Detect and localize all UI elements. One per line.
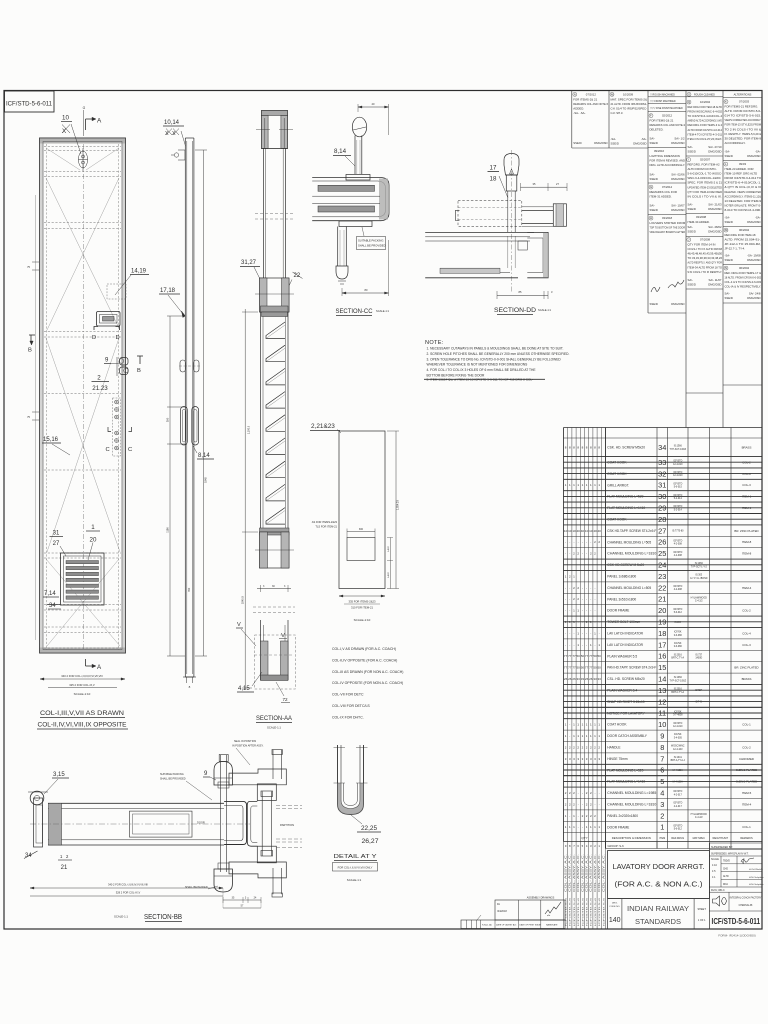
svg-text:-: - xyxy=(569,814,570,818)
svg-text:N: N xyxy=(725,266,727,270)
svg-text:5-6-010/COL-1 TO WGSC-: 5-6-010/COL-1 TO WGSC- xyxy=(688,172,723,176)
svg-text:328 2 FOR COL-IX,V: 328 2 FOR COL-IX,V xyxy=(116,891,141,895)
svg-text:22: 22 xyxy=(658,583,666,592)
svg-text:DOOR CATCH ASSEMBLY: DOOR CATCH ASSEMBLY xyxy=(607,734,647,738)
svg-text:2: 2 xyxy=(586,791,588,795)
svg-text:ACCORDINGLY. ITEMS-11,12&: ACCORDINGLY. ITEMS-11,12& xyxy=(725,194,762,198)
svg-text:SA/- 1/2: SA/- 1/2 xyxy=(674,137,685,141)
svg-text:R.Num. Alt.: R.Num. Alt. xyxy=(482,924,493,927)
svg-text:WEIGHT/UNIT: WEIGHT/UNIT xyxy=(712,837,728,840)
svg-text:ICF/STD-5-6: ICF/STD-5-6 xyxy=(591,896,593,926)
svg-text:ALTD FROM ICF/STD-: ALTD FROM ICF/STD- xyxy=(688,167,717,171)
svg-text:Dn: Dn xyxy=(497,903,501,906)
svg-text:SUPERSEDED BY:: SUPERSEDED BY: xyxy=(711,846,733,849)
svg-text:WGSC/WNC: WGSC/WNC xyxy=(671,746,685,748)
svg-text:1: 1 xyxy=(598,723,600,727)
section BB centre hinge xyxy=(214,755,232,893)
svg-text:31,27: 31,27 xyxy=(241,260,257,266)
svg-text:COL- ASSY. A.C.: COL- ASSY. A.C. xyxy=(573,853,576,892)
svg-text:DMG/DSD: DMG/DSD xyxy=(747,154,760,158)
svg-text:1: 1 xyxy=(573,723,575,727)
svg-text:CHD: CHD xyxy=(723,868,728,870)
svg-text:2: 2 xyxy=(569,802,571,806)
svg-text:PLAIN WASHER 5.5: PLAIN WASHER 5.5 xyxy=(607,654,637,658)
svg-text:1400D: 1400D xyxy=(695,658,702,660)
svg-text:-: - xyxy=(582,825,583,829)
svg-text:-: - xyxy=(565,586,566,590)
svg-text:N: N xyxy=(574,92,576,96)
svg-text:ICF/STD-6-4-010/COL-1.: ICF/STD-6-4-010/COL-1. xyxy=(725,181,762,185)
svg-text:WHEREVER TOLERANCE IS NOT MENT: WHEREVER TOLERANCE IS NOT MENTIONED FOR … xyxy=(427,363,529,367)
svg-text:COL-III AS DRAWN (FOR NON A.: COL-III AS DRAWN (FOR NON A.C. COACH) xyxy=(332,670,403,674)
svg-text:-: - xyxy=(565,609,566,613)
svg-text:REF.DRG FOR ITEMS-3 & 4: REF.DRG FOR ITEMS-3 & 4 xyxy=(688,123,723,127)
svg-text:ITEM-31 ADDED.: ITEM-31 ADDED. xyxy=(650,195,672,199)
svg-text:COL- ASSY. A.C.: COL- ASSY. A.C. xyxy=(602,853,605,892)
svg-text:FROM ICF/STD-6-4-012 TO: FROM ICF/STD-6-4-012 TO xyxy=(725,176,762,180)
svg-text:2: 2 xyxy=(590,814,592,818)
svg-text:07/2003: 07/2003 xyxy=(739,100,750,104)
label 14,19 with leader xyxy=(115,269,149,296)
svg-text:10: 10 xyxy=(585,529,589,533)
svg-text:ASSEMBLY DRAWINGS: ASSEMBLY DRAWINGS xyxy=(527,897,555,900)
svg-text:5-6-015: 5-6-015 xyxy=(674,487,683,489)
section column bottom rail dims xyxy=(253,585,295,613)
svg-text:3: 3 xyxy=(551,290,553,294)
svg-text:ICF/STD-5-6: ICF/STD-5-6 xyxy=(595,896,597,926)
svg-text:D: D xyxy=(92,335,96,341)
svg-text:2: 2 xyxy=(586,745,588,749)
svg-text:REF.DRG. FOR ITEM-A2: REF.DRG. FOR ITEM-A2 xyxy=(688,163,720,167)
svg-text:ICF/STD: ICF/STD xyxy=(673,586,682,588)
svg-text:-: - xyxy=(578,825,579,829)
title block right info column xyxy=(709,843,764,929)
svg-text:1: 1 xyxy=(573,814,575,818)
svg-text:SCALE-1:1: SCALE-1:1 xyxy=(114,915,128,919)
svg-text:3: 3 xyxy=(590,757,592,761)
svg-text:4: 4 xyxy=(586,844,588,848)
svg-text:2: 2 xyxy=(573,802,575,806)
svg-text:10: 10 xyxy=(62,115,69,122)
svg-text:1845: 1845 xyxy=(204,477,208,483)
svg-text:1: 1 xyxy=(577,483,579,487)
shall be packed note xyxy=(185,886,218,889)
svg-text:PARTITION: PARTITION xyxy=(280,823,294,827)
caption SECTION-DD xyxy=(494,307,552,315)
svg-text:1: 1 xyxy=(586,825,588,829)
louver grille front view xyxy=(61,553,105,605)
caption COL-I,III,V,VII AS DRAWN xyxy=(37,710,128,729)
svg-text:DELETED.: DELETED. xyxy=(650,127,664,131)
svg-text:-: - xyxy=(590,597,591,601)
svg-text:09/2016: 09/2016 xyxy=(654,149,665,153)
svg-text:-: - xyxy=(586,586,587,590)
note block xyxy=(424,340,570,382)
svg-text:ITEM-10 REF. DRG ALTD: ITEM-10 REF. DRG ALTD xyxy=(725,172,758,176)
svg-text:DMG/DSD: DMG/DSD xyxy=(708,283,721,287)
svg-text:8: 8 xyxy=(598,445,600,449)
svg-text:SSE/D: SSE/D xyxy=(725,296,733,300)
section arrow A (bottom) xyxy=(86,659,103,671)
svg-text:L: L xyxy=(725,162,727,166)
svg-text:-: - xyxy=(595,586,596,590)
label 31 / 27 (louver) xyxy=(50,531,67,557)
svg-text:25: 25 xyxy=(658,549,666,558)
svg-text:2: 2 xyxy=(569,745,571,749)
svg-text:72: 72 xyxy=(282,697,288,702)
svg-text:COL- ASSY. A.C.: COL- ASSY. A.C. xyxy=(569,853,572,892)
svg-text:IS:7775-80: IS:7775-80 xyxy=(672,531,684,533)
svg-text:1: 1 xyxy=(569,825,571,829)
svg-text:DMG/DSD: DMG/DSD xyxy=(633,142,646,146)
svg-text:2: 2 xyxy=(577,552,579,556)
section CC knob and stem xyxy=(352,117,366,174)
label 3,15 xyxy=(44,772,69,794)
svg-text:75: 75 xyxy=(27,265,30,269)
label 10 with screw symbol xyxy=(61,115,81,155)
svg-text:FOR ITEM-13 STYLE2S.FROM: FOR ITEM-13 STYLE2S.FROM xyxy=(725,123,762,127)
svg-text:1: 1 xyxy=(577,734,579,738)
svg-text:SSE/D: SSE/D xyxy=(688,230,696,234)
svg-text:-: - xyxy=(565,540,566,544)
svg-text:5: 5 xyxy=(582,844,584,848)
section C-C bolt strip detail xyxy=(106,398,133,456)
svg-text:SA/- 02/06: SA/- 02/06 xyxy=(671,173,685,177)
svg-text:-: - xyxy=(590,540,591,544)
svg-text:2: 2 xyxy=(590,552,592,556)
svg-text:1:1: 1:1 xyxy=(712,876,716,879)
svg-text:A: A xyxy=(97,664,102,671)
svg-text:PAN HD.TAPP. SCREW ST4.2x9-F: PAN HD.TAPP. SCREW ST4.2x9-F xyxy=(607,666,656,670)
svg-text:INDIAN RAILWAY: INDIAN RAILWAY xyxy=(627,904,689,913)
svg-text:JP-112-1 TO 15.004-R2,: JP-112-1 TO 15.004-R2, xyxy=(725,242,762,246)
panel detail dimensions xyxy=(312,431,400,622)
svg-text:1,190.5: 1,190.5 xyxy=(248,425,251,434)
svg-text:-: - xyxy=(595,597,596,601)
svg-text:ADDED.: ADDED. xyxy=(573,107,584,111)
door elevation internal dashed rails xyxy=(44,144,121,650)
svg-text:ICF/STD: ICF/STD xyxy=(673,803,682,805)
svg-text:18 ALTD. FROM ICF/SN-0-6-002: 18 ALTD. FROM ICF/SN-0-6-002 xyxy=(725,276,762,280)
svg-text:ICF/STD: ICF/STD xyxy=(673,791,682,793)
svg-text:3. OPEN TOLERANCE TO DRG No. I: 3. OPEN TOLERANCE TO DRG No. ICF/STD-0-0… xyxy=(427,357,562,361)
svg-text:300: 300 xyxy=(359,528,364,531)
side view bottom foot xyxy=(183,677,196,689)
svg-text:LAVATORY DOOR ARRGT.: LAVATORY DOOR ARRGT. xyxy=(613,862,705,871)
svg-text:SHALL BE PROVIDED: SHALL BE PROVIDED xyxy=(358,244,386,248)
section CC bottom dimension xyxy=(342,240,389,296)
svg-text:-: - xyxy=(569,631,570,635)
svg-text:-: - xyxy=(582,586,583,590)
svg-text:C: C xyxy=(106,447,110,453)
svg-text:COL-4: COL-4 xyxy=(742,631,751,635)
svg-text:▽ ROUGH MACHINED: ▽ ROUGH MACHINED xyxy=(650,93,675,96)
svg-text:-SA-: -SA- xyxy=(725,216,731,220)
svg-text:26: 26 xyxy=(572,677,576,681)
svg-text:1: 1 xyxy=(598,483,600,487)
svg-text:-SA-: -SA- xyxy=(725,150,731,154)
svg-text:ITEM-34 ALTD FROM 18 TO: ITEM-34 ALTD FROM 18 TO xyxy=(688,265,723,269)
svg-text:ICF/STD: ICF/STD xyxy=(673,825,682,827)
svg-text:1: 1 xyxy=(91,524,95,531)
parts table grid xyxy=(564,428,763,929)
svg-text:1: 1 xyxy=(590,734,592,738)
svg-text:2: 2 xyxy=(582,814,584,818)
svg-text:FOR ITEM-8 REVISED. AND: FOR ITEM-8 REVISED. AND xyxy=(650,159,686,163)
svg-text:SA/- 10/07: SA/- 10/07 xyxy=(671,204,685,208)
svg-text:10: 10 xyxy=(658,720,666,729)
svg-text:QTY FOR ITEM-10 REVISED: QTY FOR ITEM-10 REVISED xyxy=(688,190,723,194)
svg-text:SA/-: SA/- xyxy=(688,278,694,282)
svg-text:3-6-080: 3-6-080 xyxy=(674,646,683,648)
svg-text:10/2004: 10/2004 xyxy=(700,100,711,104)
door handle recess detail xyxy=(97,312,121,327)
svg-text:SUITABLE PACKING: SUITABLE PACKING xyxy=(358,239,383,243)
svg-text:1: 1 xyxy=(594,734,596,738)
svg-text:H.N.Chn/pthan: H.N.Chn/pthan xyxy=(749,876,764,879)
svg-text:02/2012: 02/2012 xyxy=(662,114,673,118)
svg-text:5-6-012: 5-6-012 xyxy=(674,829,683,831)
svg-text:8: 8 xyxy=(590,445,592,449)
svg-text:-: - xyxy=(569,552,570,556)
svg-text:34: 34 xyxy=(49,603,56,609)
svg-text:2: 2 xyxy=(660,811,664,820)
svg-text:ALTD. FROM 15.004-91-,: ALTD. FROM 15.004-91-, xyxy=(725,238,762,242)
section DD bottom dimension xyxy=(497,290,553,299)
svg-text:COL- ASSY. A.C.: COL- ASSY. A.C. xyxy=(586,853,589,892)
svg-text:DETAIL AT Y: DETAIL AT Y xyxy=(334,854,378,860)
svg-text:SSE/D: SSE/D xyxy=(725,258,733,262)
svg-text:-: - xyxy=(569,734,570,738)
svg-text:QTY: QTY xyxy=(581,836,587,840)
svg-text:2,21&23: 2,21&23 xyxy=(311,423,335,430)
parts table header row xyxy=(581,836,753,840)
svg-text:GROUP: S-6: GROUP: S-6 xyxy=(608,844,625,848)
svg-text:FORM- IRJ414-1(ODO/650): FORM- IRJ414-1(ODO/650) xyxy=(718,934,756,938)
svg-text:COL-1: COL-1 xyxy=(742,723,751,727)
svg-text:SA/-: SA/- xyxy=(688,225,694,229)
svg-text:-: - xyxy=(569,540,570,544)
panel detail 2,21&23 xyxy=(310,423,385,589)
svg-text:40: 40 xyxy=(581,529,585,533)
svg-text:12-4-010: 12-4-010 xyxy=(673,475,683,477)
svg-text:CHANNEL MOULDING L=1985: CHANNEL MOULDING L=1985 xyxy=(607,791,656,795)
svg-text:26: 26 xyxy=(568,677,572,681)
svg-text:2: 2 xyxy=(573,597,575,601)
svg-text:-: - xyxy=(569,643,570,647)
svg-text:TLS FOR ITEM-21: TLS FOR ITEM-21 xyxy=(315,525,337,529)
svg-text:33: 33 xyxy=(598,677,602,681)
svg-text:6: 6 xyxy=(577,844,579,848)
svg-text:35: 35 xyxy=(533,182,536,186)
svg-text:26: 26 xyxy=(589,677,593,681)
svg-text:SCALE-1:10: SCALE-1:10 xyxy=(354,618,371,622)
svg-text:Gr 'C' CL./BOND: Gr 'C' CL./BOND xyxy=(690,577,708,580)
svg-text:2: 2 xyxy=(594,814,596,818)
svg-text:4-2-008: 4-2-008 xyxy=(674,544,683,546)
label 34 struck xyxy=(47,603,61,609)
svg-text:12-4-103: 12-4-103 xyxy=(673,749,683,751)
svg-text:3: 3 xyxy=(284,585,286,588)
svg-text:40: 40 xyxy=(593,529,597,533)
svg-text:SCALE-1:1: SCALE-1:1 xyxy=(376,309,390,313)
svg-text:2: 2 xyxy=(598,540,600,544)
svg-text:SA/-: SA/- xyxy=(688,145,694,149)
svg-text:SPEC. FOR ITEMS-2 & 21: SPEC. FOR ITEMS-2 & 21 xyxy=(688,181,723,185)
svg-text:-: - xyxy=(578,540,579,544)
svg-text:REMARKS COL AND NOTE-3: REMARKS COL AND NOTE-3 xyxy=(650,123,686,127)
svg-text:3: 3 xyxy=(565,757,567,761)
svg-text:3: 3 xyxy=(573,757,575,761)
svg-text:3: 3 xyxy=(586,757,588,761)
svg-text:VIEWS CORRECTED ACCORDILY.: VIEWS CORRECTED ACCORDILY. xyxy=(725,118,762,122)
svg-text:NAME/DATE: NAME/DATE xyxy=(546,924,558,927)
svg-text:1: 1 xyxy=(586,483,588,487)
svg-text:1. NECESSARY CUTAWAYS IN PANEL: 1. NECESSARY CUTAWAYS IN PANELS & MOULDI… xyxy=(427,347,564,351)
svg-text:COL-I,V AS DRAWN (FOR A.C. C: COL-I,V AS DRAWN (FOR A.C. COACH) xyxy=(332,647,396,651)
svg-text:07/2008: 07/2008 xyxy=(700,238,711,242)
section BB long dimension lines xyxy=(30,883,223,897)
svg-text:30: 30 xyxy=(272,585,275,588)
svg-text:3-7-4008: 3-7-4008 xyxy=(673,715,683,717)
svg-text:8: 8 xyxy=(594,445,596,449)
svg-text:1: 1 xyxy=(594,631,596,635)
svg-text:77: 77 xyxy=(568,654,572,658)
svg-text:REF DRG FOR ITEM-18 ALTD: REF DRG FOR ITEM-18 ALTD xyxy=(688,105,723,109)
svg-text:ICF/STD-5-6: ICF/STD-5-6 xyxy=(570,896,572,926)
revision column 4 header and blocks xyxy=(687,92,723,286)
svg-text:SEAL IN POSITION: SEAL IN POSITION xyxy=(234,740,256,743)
svg-text:50: 50 xyxy=(577,654,581,658)
svg-text:TO 2 IN COLS-I TO VII &: TO 2 IN COLS-I TO VII & xyxy=(725,127,762,131)
svg-text:SHALL BE PROVIDED: SHALL BE PROVIDED xyxy=(160,778,186,781)
svg-text:75: 75 xyxy=(27,415,30,419)
svg-text:4-2-017: 4-2-017 xyxy=(674,794,683,796)
section DD lower channel assembly xyxy=(425,232,548,277)
svg-text:AMEND ALTD ACCORDINGLY.WG: AMEND ALTD ACCORDINGLY.WG xyxy=(688,119,723,123)
svg-text:SECTION-AA: SECTION-AA xyxy=(256,715,293,722)
svg-text:DNA: DNA xyxy=(723,883,728,886)
svg-text:DMG/DSD: DMG/DSD xyxy=(747,220,760,224)
svg-text:18: 18 xyxy=(490,176,497,183)
svg-text:3: 3 xyxy=(594,757,596,761)
svg-text:COL-IA & IV RESPECTIVELY.: COL-IA & IV RESPECTIVELY. xyxy=(725,285,762,289)
section DD top dimension xyxy=(521,182,568,191)
svg-text:33: 33 xyxy=(581,677,585,681)
revision column 1 block N xyxy=(573,92,609,145)
svg-text:2: 2 xyxy=(598,745,600,749)
svg-text:50: 50 xyxy=(598,654,602,658)
svg-text:2: 2 xyxy=(97,375,101,382)
svg-text:7: 7 xyxy=(660,754,664,763)
svg-text:21.23: 21.23 xyxy=(92,385,108,392)
svg-text:SSE/D: SSE/D xyxy=(688,150,696,154)
svg-text:COL-II,IV,VI,VIII,IX OPPOSITE: COL-II,IV,VI,VIII,IX OPPOSITE xyxy=(38,722,127,729)
svg-text:1: 1 xyxy=(577,631,579,635)
svg-text:IS:1341: IS:1341 xyxy=(674,757,683,759)
section CC top dimension xyxy=(358,102,389,135)
suitable packing note (section BB) xyxy=(160,773,212,800)
svg-text:06/2004: 06/2004 xyxy=(739,266,750,270)
svg-text:C-K SH.3.: C-K SH.3. xyxy=(611,111,624,115)
svg-text:LOUVERS SHIFTED FROM: LOUVERS SHIFTED FROM xyxy=(650,221,686,225)
svg-text:34: 34 xyxy=(658,443,666,452)
svg-text:-: - xyxy=(595,609,596,613)
svg-text:ICF/STD: ICF/STD xyxy=(673,723,682,725)
svg-text:BRT-C.TY-A: BRT-C.TY-A xyxy=(671,691,684,694)
svg-text:SUPERSEDES: WP/ICF/LAV'A/ W.T: SUPERSEDES: WP/ICF/LAV'A/ W.T. xyxy=(711,853,749,856)
svg-text:1: 1 xyxy=(565,574,567,578)
caption DETAIL AT Y xyxy=(333,854,378,882)
svg-text:TBD/D: TBD/D xyxy=(723,861,730,863)
seal note (section BB) xyxy=(232,740,264,765)
svg-text:1:10: 1:10 xyxy=(712,864,717,867)
svg-text:ICF/STD-5-6: ICF/STD-5-6 xyxy=(587,896,589,926)
svg-text:H.Ch.DNa/aN.: H.Ch.DNa/aN. xyxy=(749,869,763,871)
svg-text:-: - xyxy=(565,643,566,647)
svg-text:DRG.: DRG. xyxy=(612,903,618,905)
svg-text:140/2: 140/2 xyxy=(388,545,390,551)
svg-text:BR. ZINC PLATED: BR. ZINC PLATED xyxy=(734,529,758,533)
svg-text:SSE/D: SSE/D xyxy=(611,142,619,146)
svg-text:M-4-150A: M-4-150A xyxy=(673,780,684,783)
section column bottom cap of louver xyxy=(255,528,294,568)
svg-text:REF. DRG.FOR ITEMS-17 &: REF. DRG.FOR ITEMS-17 & xyxy=(725,271,762,275)
svg-text:SECTION-CC: SECTION-CC xyxy=(336,308,373,315)
svg-text:BRT-A,TY.A-J: BRT-A,TY.A-J xyxy=(671,759,685,762)
svg-text:140/2: 140/2 xyxy=(388,571,390,577)
svg-text:1: 1 xyxy=(590,825,592,829)
svg-text:BRASS: BRASS xyxy=(742,677,752,681)
svg-text:DELETED. VIEWS CORRECTED: DELETED. VIEWS CORRECTED xyxy=(725,190,762,194)
svg-text:COL-VII FOR DETC: COL-VII FOR DETC xyxy=(332,693,364,697)
svg-text:SUITABLE PACKING: SUITABLE PACKING xyxy=(160,773,184,776)
svg-text:ACCORDINGLY.: ACCORDINGLY. xyxy=(725,141,746,145)
revision column 3 header and blocks xyxy=(649,93,686,306)
svg-text:SSE/D: SSE/D xyxy=(725,220,733,224)
svg-text:HINGE 75mm: HINGE 75mm xyxy=(607,757,628,761)
svg-text:1: 1 xyxy=(577,723,579,727)
svg-text:21: 21 xyxy=(61,865,68,871)
svg-text:C-4 2/2: C-4 2/2 xyxy=(695,817,703,819)
section BB left pivot xyxy=(28,791,48,847)
svg-text:CODE NO.: CODE NO. xyxy=(609,906,620,908)
svg-text:1: 1 xyxy=(573,734,575,738)
svg-text:1: 1 xyxy=(594,723,596,727)
svg-text:ICF/SK: ICF/SK xyxy=(674,734,682,736)
svg-text:1: 1 xyxy=(582,483,584,487)
svg-text:2: 2 xyxy=(594,540,596,544)
svg-text:7,14: 7,14 xyxy=(44,591,56,597)
svg-text:14,19: 14,19 xyxy=(131,269,147,275)
svg-text:COL-2: COL-2 xyxy=(742,745,751,749)
svg-text:1: 1 xyxy=(569,483,571,487)
label 15,16 with leader xyxy=(42,437,70,455)
label 17 / 18 (section DD) xyxy=(488,165,509,199)
svg-text:9: 9 xyxy=(565,844,567,848)
svg-text:COL- ASSY. A.C.: COL- ASSY. A.C. xyxy=(598,853,601,892)
svg-text:CHANNEL MOULDING L=1810: CHANNEL MOULDING L=1810 xyxy=(607,803,656,807)
svg-text:140: 140 xyxy=(609,917,621,924)
svg-text:PANEL 1x686x1800: PANEL 1x686x1800 xyxy=(607,575,636,579)
svg-text:300: 300 xyxy=(166,417,170,422)
svg-text:MAT.SPEC: MAT.SPEC xyxy=(693,837,706,840)
svg-text:2: 2 xyxy=(586,814,588,818)
svg-text:I: I xyxy=(688,158,689,162)
svg-text:TYP-SCT-1/90Z: TYP-SCT-1/90Z xyxy=(669,449,686,451)
svg-text:85: 85 xyxy=(519,290,522,294)
svg-text:-SA- -SA-: -SA- -SA- xyxy=(573,111,585,115)
